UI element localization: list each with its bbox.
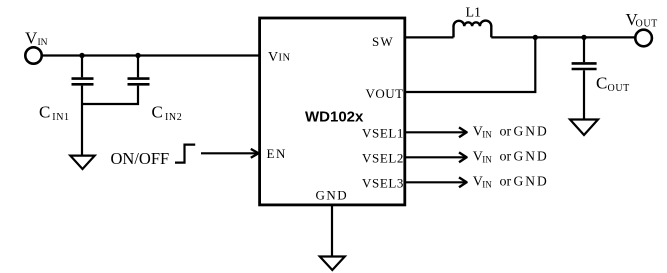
terminal VIN (25, 47, 41, 63)
label VOUT terminal (626, 10, 658, 29)
ground GND pin (320, 257, 345, 271)
label ON/OFF (111, 149, 170, 168)
svg-text:IN1: IN1 (52, 112, 69, 123)
label VSEL2 option VIN or GND (473, 149, 549, 165)
label VIN terminal (25, 28, 48, 48)
svg-text:L1: L1 (466, 5, 482, 20)
capacitor COUT (572, 37, 597, 119)
svg-text:or: or (500, 175, 512, 190)
wire VSEL1 arrow (405, 127, 467, 137)
pin VIN (268, 50, 291, 65)
label L1 (466, 5, 482, 20)
label VSEL3 option VIN or GND (473, 174, 549, 190)
wire EN arrow (201, 149, 259, 158)
pin GND (316, 188, 349, 203)
pin VSEL3 (362, 175, 404, 190)
svg-text:C: C (596, 74, 607, 93)
svg-text:VSEL3: VSEL3 (362, 175, 404, 190)
inductor L1 (454, 21, 492, 38)
wire VSEL2 arrow (405, 152, 467, 162)
svg-text:VSEL2: VSEL2 (362, 150, 404, 165)
pin VOUT (366, 86, 404, 101)
svg-text:IN: IN (482, 130, 492, 140)
svg-text:GND: GND (514, 124, 549, 139)
svg-text:GND: GND (514, 149, 549, 164)
wire inductor to VOUT terminal (491, 36, 635, 38)
label WD102x (305, 109, 364, 126)
pin VSEL1 (362, 125, 404, 140)
svg-text:VOUT: VOUT (366, 86, 404, 101)
svg-text:C: C (152, 103, 163, 122)
svg-text:V: V (268, 50, 278, 65)
svg-text:VSEL1: VSEL1 (362, 125, 404, 140)
ground input (70, 156, 94, 169)
svg-text:IN: IN (38, 38, 48, 48)
ground COUT (570, 120, 598, 136)
node junction SW feedback (533, 35, 538, 40)
svg-text:OUT: OUT (608, 83, 630, 94)
svg-text:IN2: IN2 (165, 112, 182, 123)
wire GND pin (331, 205, 333, 256)
op-amp U1 WD102x block (260, 18, 405, 205)
terminal VOUT (635, 30, 652, 47)
svg-text:IN: IN (279, 53, 291, 64)
label VSEL1 option VIN or GND (473, 124, 549, 140)
svg-text:ON/OFF: ON/OFF (111, 149, 170, 168)
pin SW (372, 34, 394, 49)
pin VSEL2 (362, 150, 404, 165)
wire VIN input rail (42, 54, 260, 56)
wire SW to inductor (405, 36, 454, 38)
label CIN1 (39, 103, 70, 123)
wire VOUT pin feedback (405, 37, 536, 92)
svg-text:WD102x: WD102x (305, 109, 364, 126)
node junction CIN1 (79, 53, 84, 58)
step waveform symbol (175, 145, 195, 163)
capacitor CIN1 (72, 56, 94, 156)
svg-text:GND: GND (316, 188, 349, 203)
label COUT (596, 74, 630, 94)
svg-text:or: or (500, 150, 512, 165)
wire VSEL3 arrow (405, 177, 467, 187)
svg-text:or: or (500, 125, 512, 140)
capacitor CIN2 (82, 56, 150, 105)
label CIN2 (152, 103, 183, 123)
node junction CIN2 (135, 53, 140, 58)
svg-text:IN: IN (482, 180, 492, 190)
svg-text:SW: SW (372, 34, 394, 49)
svg-text:OUT: OUT (636, 18, 658, 29)
svg-text:GND: GND (514, 174, 549, 189)
svg-text:IN: IN (482, 155, 492, 165)
svg-text:V: V (25, 28, 38, 47)
pin EN (267, 146, 287, 161)
svg-text:EN: EN (267, 146, 287, 161)
node junction COUT (581, 35, 586, 40)
svg-text:C: C (39, 103, 50, 122)
